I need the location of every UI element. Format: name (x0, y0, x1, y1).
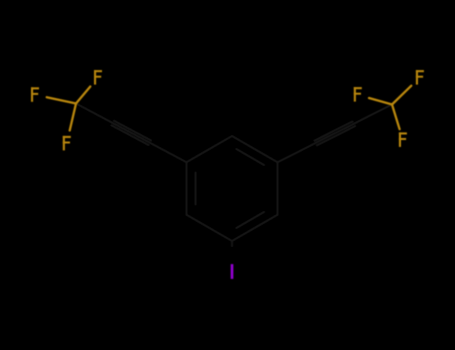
aromatic inner line bottom-right (236, 212, 264, 228)
bond C-F top (left CF3) (76, 87, 90, 104)
carbon skeleton (very dark gray) (76, 104, 392, 247)
C-I bond (purple) (231, 246, 233, 259)
bond C-F bottom (right CF3) (392, 105, 400, 130)
triple bond parallels left arm (112, 125, 149, 145)
triple bond parallels right arm (315, 121, 353, 140)
atom label F3 left-CF3 bottom (F) (63, 136, 71, 151)
C-I bond upper stub (231, 241, 233, 246)
atom label F6 right-CF3 bottom (F) (399, 132, 407, 147)
wire: right arm bond Ar-C#C-CF3 (278, 105, 393, 163)
atom label F1 left-CF3 left (F) (31, 87, 39, 102)
atom label F5 right-CF3 top (F) (416, 70, 424, 85)
benzene ring hexagon (187, 136, 278, 241)
aromatic inner line top-right (236, 149, 264, 165)
bond C-F left (left CF3) (47, 97, 76, 103)
bond C-F top (right CF3) (392, 86, 411, 105)
bond C-F left (right CF3) (369, 98, 392, 105)
wire: left arm bond Ar-C#C-CF3 (76, 104, 187, 163)
C-F bonds (orange) (47, 86, 412, 131)
atom label F4 right-CF3 left (F) (354, 87, 362, 102)
bond C-F bottom (left CF3) (70, 104, 76, 131)
aromatic inner line left (195, 173, 197, 205)
atom label F2 left-CF3 top (F) (94, 70, 102, 85)
atom label I (iodine) (231, 264, 234, 279)
